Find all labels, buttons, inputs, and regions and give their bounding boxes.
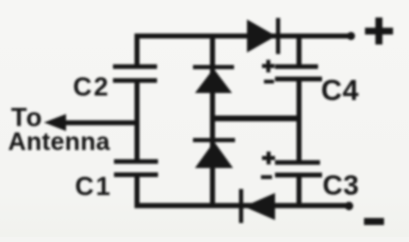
C4 plus mark: [262, 60, 275, 73]
plus output symbol: [365, 18, 393, 45]
svg-text:C3: C3: [323, 170, 360, 201]
svg-text:C4: C4: [321, 75, 359, 107]
diode D2 upper middle: [193, 65, 234, 93]
C4 minus mark: [264, 80, 274, 84]
capacitor C4: [275, 64, 322, 81]
capacitor C1: [114, 159, 158, 177]
antenna arrow head: [44, 114, 66, 131]
wire right branch middle: [297, 79, 302, 163]
antenna arrow shaft: [62, 120, 139, 125]
wire left branch lower: [135, 175, 140, 208]
wire middle junction horizontal: [210, 116, 302, 122]
minus output symbol: [364, 218, 384, 225]
wire left branch middle: [135, 81, 140, 161]
wire bottom rail: [135, 203, 349, 208]
svg-text:C1: C1: [75, 171, 112, 201]
wire right branch lower: [297, 175, 302, 207]
wire middle branch: [210, 36, 215, 206]
wire left branch upper: [135, 34, 140, 67]
C3 minus mark: [261, 175, 272, 179]
terminal dot bottom: [345, 202, 353, 210]
C3 plus mark: [262, 152, 275, 165]
diode D3 lower middle: [193, 138, 235, 168]
svg-text:C2: C2: [73, 72, 110, 102]
wire top rail: [135, 34, 349, 39]
capacitor C2: [113, 64, 157, 82]
diode D1 top: [247, 18, 280, 54]
capacitor C3: [275, 160, 322, 177]
terminal dot top: [347, 32, 355, 40]
wire right branch upper: [297, 36, 302, 66]
svg-text:Antenna: Antenna: [8, 128, 111, 156]
diode D4 bottom: [239, 189, 275, 223]
